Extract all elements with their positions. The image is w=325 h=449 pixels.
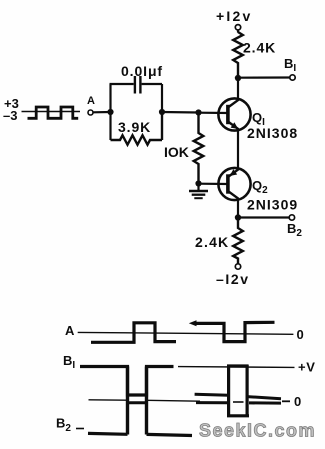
svg-text:SeekIC.com: SeekIC.com	[199, 421, 316, 441]
resistor 2.4K bottom zigzag	[233, 218, 243, 264]
svg-text:A: A	[87, 95, 95, 107]
waveform B1 trace right 0-level left	[195, 394, 229, 395]
svg-text:2NI309: 2NI309	[247, 197, 298, 213]
resistor 10K vertical	[194, 113, 204, 184]
wire right node down	[161, 112, 163, 140]
wire Q2 collector down	[237, 199, 239, 218]
svg-text:–I2v: –I2v	[216, 271, 250, 287]
wire junction to ground	[197, 184, 199, 192]
wire A terminal to node	[93, 111, 111, 114]
waveform B2 low after pulse	[147, 434, 193, 435]
pulse edge vertical left pair	[126, 367, 129, 435]
wire Q1 emitter to Q2 emitter	[237, 130, 239, 170]
terminal B1 circle	[290, 75, 295, 80]
svg-text:–3: –3	[3, 108, 17, 123]
svg-text:2.4K: 2.4K	[243, 40, 276, 56]
ground	[189, 190, 208, 193]
wire terminal to resistor	[237, 30, 239, 33]
svg-text:+V: +V	[298, 360, 315, 375]
waveform A arrow	[189, 320, 197, 326]
waveform B1 trace left	[80, 367, 174, 396]
waveform zero line lower left	[89, 399, 128, 401]
svg-text:0.0Iμf: 0.0Iμf	[121, 63, 163, 79]
svg-text:2.4K: 2.4K	[195, 234, 229, 250]
svg-text:2NI308: 2NI308	[247, 125, 298, 141]
wire top branch left	[110, 83, 134, 85]
node collector junction	[235, 75, 241, 81]
waveform A trace left	[91, 323, 176, 343]
svg-text:3.9K: 3.9K	[118, 119, 151, 135]
waveform B1 trace right 0-level right	[247, 397, 281, 399]
second pulse vertical right	[246, 365, 249, 417]
input square wave	[28, 107, 79, 118]
wire right node to base junction	[162, 111, 199, 114]
svg-text:A: A	[65, 323, 75, 338]
wire top branch right	[142, 83, 162, 85]
waveform B2 pulse bottom	[227, 414, 249, 417]
waveform B1 pulse top	[227, 364, 249, 367]
zero line dash inside pulse	[233, 401, 244, 403]
input waveform baseline	[22, 111, 81, 113]
wire left node up	[109, 84, 111, 112]
waveform B2 trace right 0-level right	[249, 401, 281, 404]
svg-text:0: 0	[294, 394, 301, 409]
second pulse vertical left	[227, 365, 230, 417]
node base junction top	[195, 109, 201, 115]
resistor 2.4K top zigzag	[233, 32, 243, 78]
waveform B2 top bar first pulse	[126, 401, 148, 404]
wire junction to Q2 base	[199, 183, 229, 186]
svg-text:+I2v: +I2v	[216, 8, 252, 24]
waveform A zero line	[78, 332, 294, 334]
wire junction to Q1 base	[199, 112, 229, 115]
terminal +12v circle	[235, 25, 240, 30]
capacitor C 0.01uf plates	[134, 76, 136, 94]
node B2 junction	[235, 214, 241, 220]
zero line dash right	[282, 400, 290, 402]
wire right node up	[161, 84, 163, 112]
transistor Q1 2N1308	[218, 98, 250, 130]
wire junction to B2 terminal	[238, 216, 289, 218]
svg-text:IOK: IOK	[164, 144, 189, 160]
terminal B2 circle	[289, 215, 294, 220]
waveform B2 trace left	[88, 432, 128, 436]
svg-text:0: 0	[297, 327, 304, 342]
node right of RC	[159, 109, 165, 115]
resistor R 3.9K zigzag	[111, 135, 163, 144]
node base junction bottom	[195, 180, 201, 186]
waveform B2 trace right 0-level left	[196, 401, 227, 404]
waveform zero line lower mid	[147, 399, 200, 402]
waveform +V line	[178, 366, 295, 369]
node left of RC	[107, 109, 113, 115]
wire junction down to Q1 collector	[237, 78, 239, 101]
terminal A circle	[88, 110, 93, 115]
terminal -12v circle	[235, 264, 240, 269]
waveform A trace right	[194, 322, 275, 341]
wire junction to B1 terminal	[238, 76, 290, 78]
B2 label dash	[76, 428, 84, 430]
transistor Q2 2N1309	[218, 168, 250, 200]
wire left node down	[109, 112, 111, 140]
